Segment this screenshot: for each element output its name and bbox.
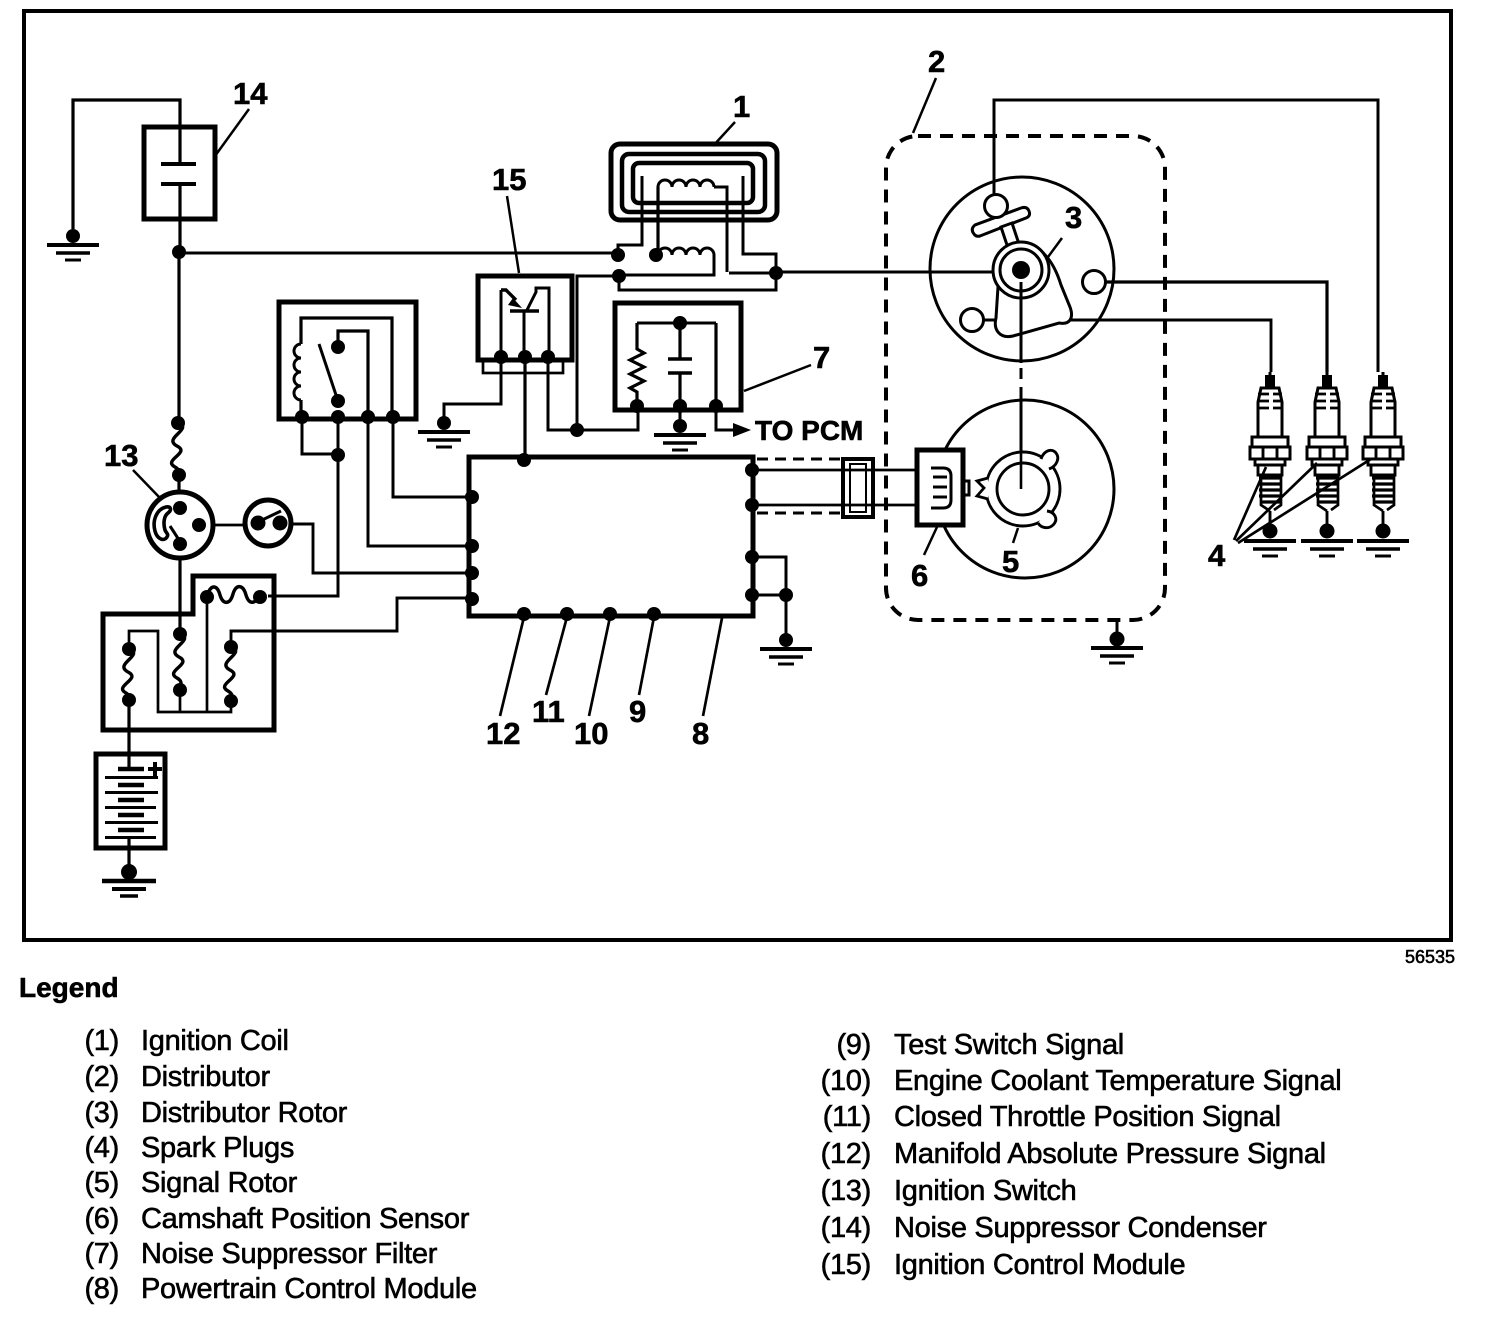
svg-text:(14): (14) — [821, 1212, 871, 1244]
wire rotor right terminal to spark plug 2 — [1106, 282, 1327, 372]
svg-text:Manifold Absolute Pressure Sig: Manifold Absolute Pressure Signal — [894, 1138, 1326, 1170]
svg-text:9: 9 — [629, 694, 646, 729]
resistor R1 inside filter — [630, 323, 644, 406]
svg-text:Distributor: Distributor — [141, 1061, 270, 1093]
wire relay pin4 to PCM — [393, 417, 469, 497]
svg-text:Noise Suppressor Condenser: Noise Suppressor Condenser — [894, 1212, 1267, 1244]
leader 12 — [486, 617, 524, 751]
rotor center bearing — [993, 242, 1049, 298]
svg-text:Powertrain Control Module: Powertrain Control Module — [141, 1273, 477, 1305]
legend title — [19, 972, 119, 1003]
spark plug 3 — [1363, 372, 1403, 525]
rotor wedge — [995, 243, 1071, 337]
label 7 — [744, 340, 830, 391]
ignition coil T1 core lead left — [618, 176, 642, 250]
svg-text:(6): (6) — [84, 1203, 119, 1235]
label 13 — [104, 438, 160, 498]
connector in harness — [843, 459, 873, 517]
label TO PCM — [755, 415, 863, 446]
capacitor C14 noise suppressor condenser box — [144, 127, 215, 252]
svg-text:15: 15 — [492, 162, 526, 197]
wire distributor ground — [1116, 620, 1119, 633]
camshaft position sensor B6 — [917, 450, 969, 525]
svg-text:(4): (4) — [84, 1132, 119, 1164]
ignition coil T1 secondary winding — [611, 248, 714, 275]
transistor Q1 inside module — [494, 288, 555, 364]
dashed harness lines PCM to connector — [757, 459, 842, 513]
label 1 — [713, 89, 750, 146]
noise suppressor filter F7 box — [615, 303, 741, 410]
fuse block outline — [103, 576, 274, 730]
label 15 — [492, 162, 526, 273]
spark plug 2 — [1307, 372, 1347, 525]
ground (module U15) — [418, 416, 470, 447]
wire relay pin1 L to junction — [302, 417, 345, 462]
leader 11 — [532, 617, 567, 729]
svg-text:5: 5 — [1002, 544, 1019, 579]
svg-text:Closed Throttle Position Signa: Closed Throttle Position Signal — [894, 1101, 1281, 1133]
wire from condenser C14 top to ground — [73, 100, 180, 229]
wire module pin2 to PCM — [523, 357, 526, 457]
label 2 — [913, 44, 945, 133]
leader 8 — [692, 618, 722, 751]
ignition coil T1 core lead right — [743, 176, 776, 268]
powertrain control module U8 box — [465, 453, 759, 621]
wire module pin1 to ground — [444, 357, 501, 418]
fuse top row squiggle — [200, 587, 267, 712]
fuse C (PCM feed) — [224, 640, 238, 708]
ignition switch SW13 circle — [147, 492, 213, 558]
ground (plug 3) — [1357, 524, 1409, 557]
spark plug 1 — [1250, 372, 1290, 525]
label 6 — [911, 527, 937, 593]
svg-text:(12): (12) — [821, 1138, 871, 1170]
battery — [96, 754, 165, 848]
svg-text:(13): (13) — [821, 1175, 871, 1207]
legend right column — [821, 1029, 1342, 1281]
wire coil bypass loop — [619, 273, 776, 290]
fuse B (ignition feed) — [173, 627, 187, 712]
wire coil negative to module — [577, 276, 619, 430]
svg-text:7: 7 — [813, 340, 830, 375]
svg-text:(1): (1) — [84, 1025, 119, 1057]
svg-text:10: 10 — [574, 716, 608, 751]
wire battery to ground — [127, 838, 130, 866]
label 4 with leaders — [1208, 459, 1371, 573]
leader 10 — [574, 617, 610, 751]
svg-text:56535: 56535 — [1405, 947, 1455, 967]
svg-text:Ignition Control Module: Ignition Control Module — [894, 1249, 1185, 1281]
node coil negative — [612, 269, 626, 283]
node coil HT output — [769, 266, 783, 280]
wire relay pin3 to PCM — [368, 417, 469, 546]
fuse A (battery feed) — [122, 631, 231, 712]
distributor housing dashed box — [886, 136, 1165, 620]
wire bus B+ from node A to ignition coil — [179, 252, 618, 255]
ground (top-left, condenser) — [47, 229, 99, 260]
relay box — [279, 302, 416, 424]
wire PCM right pins to ground — [752, 557, 793, 634]
ground (filter F7) — [654, 419, 706, 450]
rotor arm and paddle — [972, 207, 1029, 266]
svg-text:1: 1 — [733, 89, 750, 124]
ignition coil T1 core rings — [611, 144, 777, 220]
key-on contact circle — [213, 500, 291, 546]
wire relay pin2 down to fuse block — [268, 417, 338, 596]
ignition control module U15 box — [478, 276, 572, 373]
ground (distributor) — [1091, 632, 1143, 664]
rotor cap terminals — [961, 195, 1106, 332]
border frame — [24, 11, 1451, 940]
svg-text:(3): (3) — [84, 1097, 119, 1129]
svg-text:(9): (9) — [836, 1029, 871, 1061]
svg-text:Legend: Legend — [19, 972, 119, 1003]
svg-text:(7): (7) — [84, 1238, 119, 1270]
legend left column — [84, 1025, 476, 1305]
svg-text:4: 4 — [1208, 538, 1226, 573]
leader 9 — [629, 617, 654, 729]
label 5 — [1002, 528, 1019, 579]
wire node A down to ignition switch squiggle — [177, 252, 180, 421]
wire fuse C to PCM pin — [231, 598, 469, 647]
wire key-on contact to PCM pin (test switch) — [292, 524, 469, 573]
label 14 — [215, 76, 268, 156]
wire coil HT to distributor rotor — [776, 271, 1014, 274]
node A junction below C14 — [172, 245, 186, 259]
svg-text:6: 6 — [911, 558, 928, 593]
svg-text:(2): (2) — [84, 1061, 119, 1093]
svg-text:Ignition Coil: Ignition Coil — [141, 1025, 289, 1057]
filter right branch — [630, 323, 723, 413]
svg-text:(8): (8) — [84, 1273, 119, 1305]
distributor cap circle — [930, 177, 1114, 361]
svg-text:Distributor Rotor: Distributor Rotor — [141, 1097, 348, 1129]
svg-text:Noise Suppressor Filter: Noise Suppressor Filter — [141, 1238, 438, 1270]
svg-text:11: 11 — [532, 694, 565, 729]
wire PCM to cam sensor (2 signals) — [752, 470, 917, 505]
signal rotor housing circle — [936, 400, 1114, 578]
wire filter mid pin to ground — [679, 406, 682, 420]
svg-text:14: 14 — [233, 76, 268, 111]
svg-text:Camshaft Position Sensor: Camshaft Position Sensor — [141, 1203, 470, 1235]
svg-text:13: 13 — [104, 438, 138, 473]
wire ignition switch down to fuse block — [178, 558, 181, 628]
signal rotor cam — [977, 450, 1060, 527]
svg-text:8: 8 — [692, 716, 709, 751]
ignition coil T1 primary winding — [658, 180, 727, 272]
ground (plug 2) — [1301, 524, 1353, 557]
svg-text:Test Switch Signal: Test Switch Signal — [894, 1029, 1124, 1061]
ground (battery) — [102, 864, 156, 896]
distributor shaft — [1020, 282, 1023, 489]
svg-text:(5): (5) — [84, 1167, 119, 1199]
svg-text:Engine Coolant Temperature Sig: Engine Coolant Temperature Signal — [894, 1065, 1341, 1097]
svg-text:12: 12 — [486, 716, 520, 751]
ground (PCM) — [760, 633, 812, 664]
wire rotor lower terminal to spark plug 1 — [983, 320, 1271, 372]
squiggle wire above ignition switch — [171, 416, 186, 491]
wire fuse A to battery — [127, 700, 130, 769]
svg-text:TO PCM: TO PCM — [755, 415, 863, 446]
svg-text:Ignition Switch: Ignition Switch — [894, 1175, 1077, 1207]
svg-text:(15): (15) — [821, 1249, 871, 1281]
figure number 56535 — [1405, 947, 1455, 967]
wire filter right pin to PCM arrow — [716, 406, 751, 437]
capacitor C1 inside filter — [668, 323, 692, 406]
label 3 — [1048, 200, 1082, 257]
svg-text:Spark Plugs: Spark Plugs — [141, 1132, 294, 1164]
svg-text:Signal Rotor: Signal Rotor — [141, 1167, 298, 1199]
svg-text:(11): (11) — [823, 1101, 871, 1133]
wire module pin3 bus to filter — [548, 357, 638, 437]
svg-text:2: 2 — [928, 44, 945, 79]
wire rotor top terminal to spark plug 3 — [994, 100, 1378, 372]
ground (plug 1) — [1244, 524, 1296, 557]
svg-text:3: 3 — [1065, 200, 1082, 235]
svg-text:(10): (10) — [821, 1065, 871, 1097]
